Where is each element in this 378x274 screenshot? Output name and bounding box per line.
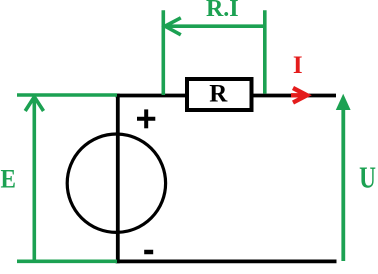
arrow E (voltage source arrow) bbox=[25, 97, 43, 261]
node line bottom-left (green) bbox=[17, 259, 117, 263]
arrow U (output voltage arrow) bbox=[336, 94, 351, 261]
measure line left of R.I (green) bbox=[162, 10, 166, 95]
voltage source E (circle) bbox=[67, 134, 165, 232]
plus sign bbox=[137, 109, 155, 128]
svg-text:R.I: R.I bbox=[206, 0, 239, 22]
svg-text:R: R bbox=[209, 80, 228, 107]
wire left branch bbox=[116, 94, 120, 264]
resistor R1 box bbox=[187, 79, 252, 110]
wire bottom bbox=[116, 259, 337, 263]
measure line right of R.I (green) bbox=[263, 10, 267, 93]
svg-text:I: I bbox=[293, 52, 303, 79]
wire top bbox=[116, 94, 337, 98]
svg-text:U: U bbox=[359, 160, 376, 194]
arrow R.I (green, pointing left) bbox=[165, 18, 265, 35]
svg-text:E: E bbox=[0, 165, 15, 194]
minus sign bbox=[144, 250, 153, 255]
current arrow I (red) bbox=[291, 88, 307, 103]
node line top-left (green) bbox=[17, 93, 117, 97]
